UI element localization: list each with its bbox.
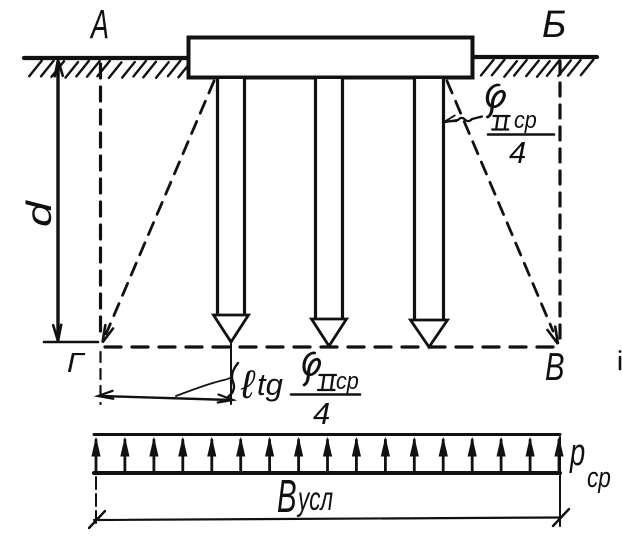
pile 1 tip	[214, 315, 249, 342]
pile 2 tip	[312, 319, 347, 346]
ground hatching right	[481, 60, 593, 77]
svg-text:В: В	[277, 472, 297, 523]
dimension line B usl	[94, 518, 561, 521]
squiggle before formula	[229, 363, 239, 397]
svg-text:Г: Г	[67, 348, 86, 379]
oblique tick left	[89, 511, 105, 528]
dimension line l tg	[100, 396, 231, 400]
svg-text:ср: ср	[587, 460, 611, 493]
leader curve to formula	[176, 378, 230, 396]
pile 1 shaft	[219, 79, 243, 316]
pile 3 tip	[411, 320, 448, 347]
ground surface line right	[474, 55, 597, 59]
ground hatching left	[29, 61, 191, 78]
page artifact at right edge	[619, 357, 622, 369]
dashed diagonal right from pile edge to В	[447, 81, 553, 331]
pile 2 shaft	[317, 79, 341, 320]
ground surface line left	[24, 56, 186, 60]
dashed boundary vertical right (Б-В)	[558, 61, 561, 338]
dimension line d (depth)	[56, 63, 59, 339]
pile 3 shaft	[416, 79, 442, 321]
svg-text:В: В	[545, 346, 565, 389]
load arrows p	[96, 440, 559, 471]
dashed boundary bottom (Г-В)	[105, 345, 554, 348]
load diagram baseline	[94, 471, 560, 475]
svg-text:tg: tg	[257, 367, 283, 402]
svg-text:р: р	[569, 432, 585, 474]
dashed diagonal left from pile edge to Г	[106, 81, 214, 334]
extension dashes below Г	[99, 352, 101, 404]
svg-text:4: 4	[509, 135, 526, 170]
pile cap (rostverk)	[189, 38, 473, 78]
extension line below pile 1 tip	[230, 344, 232, 404]
load diagram top line	[94, 433, 560, 436]
dashed boundary vertical left (A-Г)	[99, 64, 102, 338]
angle leader with squiggle	[445, 117, 482, 123]
baseline tick at bottom of d dimension	[44, 341, 98, 344]
svg-text:d: d	[19, 200, 58, 227]
oblique tick right	[553, 509, 569, 526]
svg-text:ℓ: ℓ	[240, 363, 256, 407]
label phi II cp over 4 (angle value)	[487, 85, 504, 117]
extension line left below load diagram	[95, 477, 97, 526]
svg-text:Б: Б	[542, 3, 566, 45]
svg-text:ср: ср	[336, 367, 359, 394]
svg-text:4: 4	[313, 396, 330, 431]
extension line right below load diagram	[559, 437, 561, 526]
svg-text:А: А	[89, 3, 109, 48]
svg-text:усл: усл	[296, 480, 333, 517]
svg-text:ср: ср	[514, 106, 537, 133]
